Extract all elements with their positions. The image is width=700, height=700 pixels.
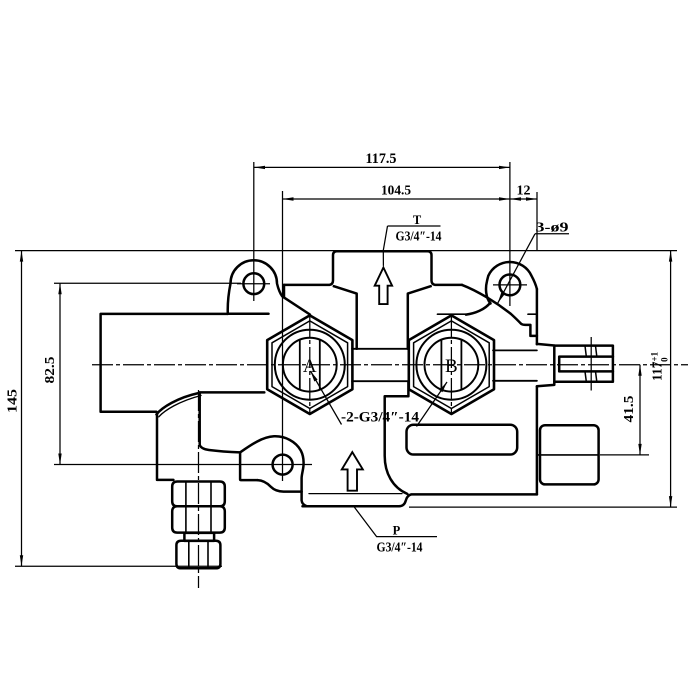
svg-text:12: 12 <box>517 184 531 199</box>
svg-text:B: B <box>445 356 458 377</box>
svg-text:T: T <box>413 213 422 227</box>
svg-text:-2-G3/4″-14: -2-G3/4″-14 <box>341 410 419 426</box>
svg-text:41.5: 41.5 <box>621 395 636 422</box>
svg-text:3-ø9: 3-ø9 <box>536 220 569 235</box>
svg-text:82.5: 82.5 <box>42 356 57 383</box>
svg-text:117.5: 117.5 <box>366 151 397 167</box>
svg-text:G3/4″-14: G3/4″-14 <box>377 540 423 555</box>
svg-text:A: A <box>303 356 317 377</box>
svg-text:G3/4″-14: G3/4″-14 <box>396 229 442 244</box>
svg-text:104.5: 104.5 <box>381 184 411 199</box>
svg-text:P: P <box>393 524 401 538</box>
svg-text:145: 145 <box>5 389 20 413</box>
